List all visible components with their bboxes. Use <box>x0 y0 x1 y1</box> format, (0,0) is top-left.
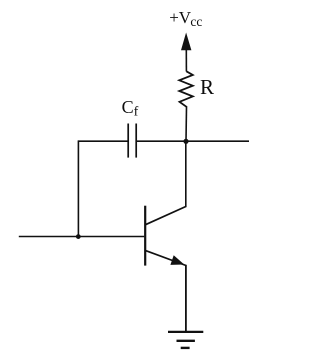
node: base junction dot <box>76 234 81 239</box>
node: collector junction dot <box>183 139 188 144</box>
wire: Vcc arrow to resistor top <box>185 47 187 72</box>
wire: left vertical feedback wire <box>77 140 79 236</box>
wire: capacitor left lead <box>78 140 128 142</box>
svg-text:Cf: Cf <box>122 97 139 119</box>
wire: collector vertical <box>185 141 187 207</box>
svg-text:R: R <box>200 75 214 99</box>
wire: base input wire <box>19 236 145 238</box>
resistor R <box>179 71 193 107</box>
Vcc arrow <box>181 33 191 51</box>
svg-text:+Vcc: +Vcc <box>169 8 202 29</box>
ground <box>168 332 203 348</box>
capacitor C_f <box>128 124 136 158</box>
wire: resistor bottom to collector node <box>185 107 188 141</box>
wire: output line right of node <box>136 140 249 142</box>
transistor Q1 <box>145 206 186 266</box>
wire: emitter vertical to ground <box>185 265 187 332</box>
